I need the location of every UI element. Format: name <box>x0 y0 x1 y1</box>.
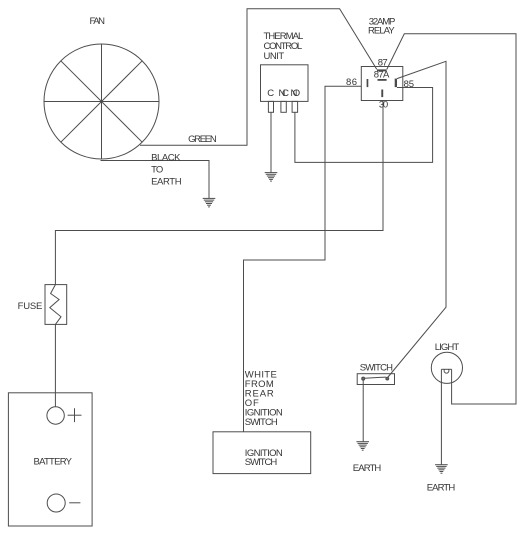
svg-text:LIGHT: LIGHT <box>435 342 460 353</box>
relay pin 85 bar <box>395 79 397 88</box>
svg-text:87A: 87A <box>374 70 390 81</box>
svg-text:85: 85 <box>404 79 414 90</box>
wire: relay pin 30 to battery horizontal and down to fuse <box>55 100 383 284</box>
relay pin 30 bar <box>381 90 383 98</box>
svg-text:BLACK: BLACK <box>151 152 181 163</box>
svg-text:UNIT: UNIT <box>264 51 285 62</box>
svg-text:SWITCH: SWITCH <box>245 457 278 468</box>
wire: fuse to battery + terminal <box>54 324 56 407</box>
battery - terminal <box>47 494 80 512</box>
wire black: fan to earth ground <box>101 161 210 199</box>
battery + terminal <box>47 407 82 424</box>
svg-text:GREEN: GREEN <box>188 134 217 145</box>
svg-text:EARTH: EARTH <box>353 463 382 474</box>
fuse F1 <box>45 285 67 325</box>
svg-text:FUSE: FUSE <box>18 301 43 312</box>
label THERMAL CONTROL UNIT <box>264 31 304 62</box>
label IGNITION SWITCH <box>245 448 283 468</box>
svg-text:BATTERY: BATTERY <box>34 456 73 467</box>
label C NC NO (TCU pins) <box>267 88 300 99</box>
svg-text:TO: TO <box>151 164 163 175</box>
battery BT1 body <box>8 393 92 526</box>
lamp L1 <box>431 352 462 383</box>
relay pin 86 bar <box>367 79 369 87</box>
svg-text:NO: NO <box>291 88 301 99</box>
svg-text:EARTH: EARTH <box>427 482 456 493</box>
ground: fan black earth <box>203 198 216 207</box>
switch S1 <box>357 374 394 385</box>
ground: lamp earth <box>435 465 448 474</box>
wire: lamp left terminal to earth ground <box>440 369 442 464</box>
ignition switch body <box>213 432 311 474</box>
ground: TCU pin C earth <box>265 173 278 182</box>
label WHITE FROM REAR OF IGNITION SWITCH <box>245 370 283 429</box>
svg-text:30: 30 <box>379 99 388 110</box>
relay K1 body <box>361 67 403 101</box>
wire: switch to earth ground <box>362 380 364 442</box>
svg-text:RELAY: RELAY <box>368 25 395 36</box>
wire: relay pin 85 to switch <box>388 61 446 377</box>
svg-text:NC: NC <box>279 88 290 99</box>
wire: relay pin 87 to lamp right terminal <box>387 34 516 404</box>
label 32AMP RELAY <box>368 17 395 37</box>
svg-text:SWITCH: SWITCH <box>245 417 278 428</box>
wire: TCU pin NO to relay pin 85 <box>295 88 433 163</box>
thermal control unit U1 <box>261 65 309 113</box>
ground: switch earth <box>356 442 369 451</box>
relay pin 87A bar <box>378 79 387 81</box>
svg-text:EARTH: EARTH <box>151 176 182 187</box>
svg-text:SWITCH: SWITCH <box>360 362 393 373</box>
svg-text:87: 87 <box>378 57 388 68</box>
wire green: fan to relay pin 87 <box>140 9 377 146</box>
svg-text:C: C <box>267 88 274 99</box>
svg-text:FAN: FAN <box>90 16 106 27</box>
wire: TCU pin C to ground <box>270 112 272 172</box>
wire: relay pin 86 to ignition switch <box>244 86 362 432</box>
label BLACK TO EARTH <box>151 152 182 187</box>
fan M1 <box>44 44 159 159</box>
relay pin 87 bar <box>377 69 387 71</box>
